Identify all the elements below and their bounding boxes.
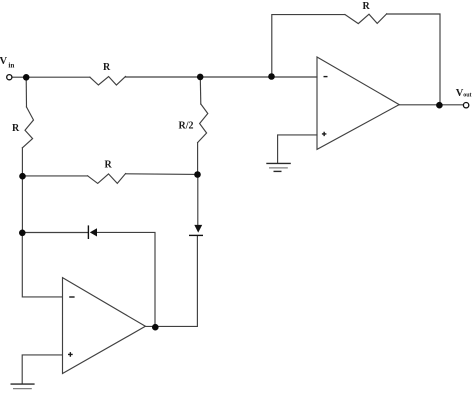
resistor R2 (R, left branch): [22, 107, 33, 148]
op-amp U1 minus symbol: [324, 76, 328, 78]
svg-text:R: R: [12, 123, 20, 134]
op-amp U2 (lower) triangle: [63, 278, 146, 374]
output node junction dot: [436, 102, 443, 109]
ground symbol (U1 non-inverting input): [266, 163, 291, 171]
wire node G to resistor R3 (middle row left lead): [23, 175, 88, 177]
node G junction dot (middle row left): [19, 173, 26, 180]
wire feedback resistor to right vertical down to output node: [387, 14, 440, 105]
op-amp U1 plus symbol: [322, 132, 327, 136]
wire U2 non-inverting input to ground: [22, 355, 62, 384]
svg-text:in: in: [8, 62, 14, 70]
op-amp U2 minus symbol: [69, 296, 74, 298]
node B junction dot: [197, 74, 204, 81]
resistor R1 (R, top input): [90, 77, 126, 86]
svg-text:R: R: [103, 62, 111, 73]
node E junction dot (U2 output): [152, 324, 159, 331]
svg-text:R: R: [363, 1, 371, 12]
node F junction dot (R/2 bottom): [194, 171, 201, 178]
diode D1 triangle (pointing left): [90, 228, 97, 236]
wire node G down to node D: [21, 176, 23, 233]
ground symbol (U2 non-inverting input): [11, 384, 35, 389]
diode D2 triangle (pointing down): [194, 225, 202, 233]
wire U1 output to Vout terminal: [399, 104, 463, 106]
resistor R4 (R, feedback of U1): [345, 14, 387, 24]
resistor R3 (R, middle row): [88, 174, 126, 184]
wire U2 output through node E to right corner up to diode D2: [145, 236, 197, 327]
input terminal circle Vin: [7, 75, 12, 80]
wire Vin terminal to node A: [12, 76, 23, 78]
node D junction dot (diode feedback tap): [19, 230, 26, 237]
wire R/2 bottom lead to node F: [197, 143, 199, 175]
wire node D to diode D1 cathode: [22, 232, 88, 234]
node A junction dot: [23, 74, 30, 81]
wire R3 right lead to node F: [126, 173, 198, 176]
wire node F down to diode D2 anode: [197, 175, 199, 226]
op-amp U1 (upper) triangle: [317, 57, 399, 149]
svg-text:V: V: [0, 56, 8, 67]
op-amp U2 plus symbol: [68, 352, 73, 357]
svg-text:R: R: [105, 160, 113, 171]
wire node C up to feedback resistor (left side of loop): [272, 15, 345, 77]
diode D1 anode wire to corner down to node E: [97, 232, 155, 327]
wire node D down and right to U2 inverting input: [22, 233, 62, 297]
wire R2 bottom lead to node G: [21, 148, 23, 176]
diode D2 cathode bar: [189, 234, 203, 236]
node C junction dot: [268, 73, 275, 80]
wire node B down through resistor R/2: [199, 77, 202, 104]
wire node A to resistor R1: [26, 76, 90, 78]
output terminal circle Vout: [463, 103, 468, 108]
wire node A down to resistor R2: [25, 77, 27, 107]
diode D1 cathode bar: [87, 225, 89, 239]
svg-text:R/2: R/2: [179, 120, 194, 131]
wire U1 non-inverting input to ground: [278, 135, 317, 163]
wire R1 to node B to node C to U1 inverting input: [126, 76, 318, 78]
svg-text:out: out: [463, 93, 471, 99]
resistor R5 (R/2): [198, 104, 208, 143]
